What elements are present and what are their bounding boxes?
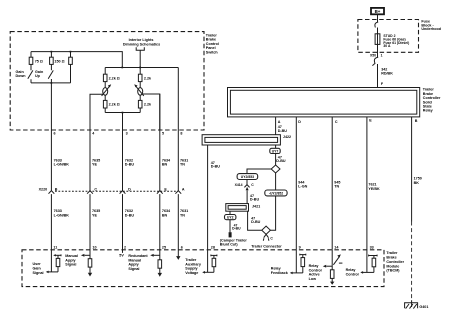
svg-text:-UY2/852: -UY2/852 bbox=[269, 192, 283, 196]
resistor 2.2k ohm left top bbox=[103, 68, 119, 82]
svg-text:3: 3 bbox=[126, 131, 128, 135]
label Relay Control Active Low bbox=[309, 264, 322, 281]
label 7633 L-GN/BK upper bbox=[54, 158, 70, 166]
svg-text:11: 11 bbox=[53, 246, 57, 250]
wire J422 to UY7 bbox=[275, 145, 277, 148]
svg-text:Redundant: Redundant bbox=[128, 254, 148, 258]
wire 7633 lower bbox=[50, 194, 52, 272]
svg-text:2.2k: 2.2k bbox=[144, 102, 152, 106]
wire J422 left drop to pin 28 bbox=[207, 145, 209, 272]
svg-text:Dimming Schematics: Dimming Schematics bbox=[123, 43, 160, 47]
wire pot bottom rail bbox=[105, 112, 140, 114]
connector UY2 bbox=[225, 215, 236, 220]
svg-text:Signal: Signal bbox=[128, 267, 139, 271]
label 47 D-BU blunt cut wire bbox=[232, 224, 241, 231]
svg-text:YE: YE bbox=[92, 213, 97, 217]
label 7635 YE upper bbox=[92, 158, 100, 166]
svg-text:Trailer: Trailer bbox=[185, 258, 197, 262]
TBCM dashed box bbox=[22, 250, 384, 287]
wire pin A 47 D-BU bbox=[275, 117, 277, 135]
svg-text:Relay: Relay bbox=[309, 264, 320, 268]
pin 33 pull resistor bbox=[367, 250, 377, 273]
label Manual Apply Signal bbox=[65, 254, 78, 267]
pin 9 pull resistor bbox=[296, 250, 306, 273]
svg-text:Signal: Signal bbox=[65, 263, 76, 267]
splice pack J421 bbox=[226, 204, 260, 212]
label Camper Trailer Blunt Cut bbox=[220, 239, 248, 247]
wire left wiper to pin4 bbox=[90, 94, 103, 130]
wire dimming stem bbox=[139, 50, 141, 67]
label 7634 BN lower bbox=[162, 209, 171, 217]
svg-text:Underhood: Underhood bbox=[421, 27, 441, 31]
junction dots pot rail bbox=[121, 67, 123, 69]
svg-text:Apply: Apply bbox=[65, 258, 76, 262]
svg-text:Gain: Gain bbox=[33, 267, 42, 271]
svg-text:E: E bbox=[164, 187, 167, 191]
svg-text:10: 10 bbox=[92, 246, 96, 250]
wire 7631 upper bbox=[177, 68, 179, 191]
svg-text:(TBCM): (TBCM) bbox=[386, 269, 400, 273]
resistor 2.2k right bottom bbox=[138, 100, 152, 112]
wire fuse to X50 bbox=[377, 44, 379, 57]
svg-text:L-GN: L-GN bbox=[298, 185, 307, 189]
wire gain rail bbox=[31, 82, 71, 84]
svg-text:D-BU: D-BU bbox=[251, 220, 261, 224]
svg-text:Signal: Signal bbox=[33, 271, 44, 275]
svg-text:B: B bbox=[55, 187, 58, 191]
connector UY2/852 bbox=[265, 190, 287, 196]
svg-text:Low: Low bbox=[309, 277, 317, 281]
svg-text:2: 2 bbox=[124, 246, 126, 250]
svg-text:28: 28 bbox=[211, 246, 215, 250]
wire right wiper to pin5 bbox=[143, 94, 160, 130]
svg-text:Trailer Connector: Trailer Connector bbox=[251, 245, 282, 249]
svg-text:150 Ω: 150 Ω bbox=[54, 59, 64, 63]
svg-text:TN: TN bbox=[334, 185, 339, 189]
wire 7632 lower bbox=[122, 194, 124, 253]
svg-text:6: 6 bbox=[54, 131, 56, 135]
svg-text:D: D bbox=[128, 187, 131, 191]
wire relay feedback arrow bbox=[290, 272, 303, 275]
svg-text:Relay: Relay bbox=[271, 267, 282, 271]
wire pin B 1750 BK solid bbox=[411, 117, 413, 222]
wire redundant apply arrow bbox=[150, 254, 160, 257]
svg-text:Down: Down bbox=[16, 74, 27, 78]
trailer brake control panel switch dashed box bbox=[10, 32, 204, 130]
svg-text:D-BU: D-BU bbox=[232, 227, 241, 231]
svg-text:5: 5 bbox=[162, 131, 164, 135]
svg-text:User: User bbox=[33, 262, 42, 266]
svg-text:D-BU: D-BU bbox=[125, 163, 135, 167]
svg-text:4: 4 bbox=[92, 131, 95, 135]
svg-text:L-GN/BK: L-GN/BK bbox=[54, 163, 70, 167]
resistor R3 unlabeled bbox=[69, 52, 73, 83]
blunt cut terminator bbox=[229, 232, 232, 237]
label 7635 YE lower bbox=[92, 209, 100, 217]
splice diamond trailer bbox=[262, 226, 271, 234]
switch Gain Up bbox=[35, 70, 53, 79]
wire 1750 BK dashed bbox=[411, 222, 413, 301]
svg-text:F: F bbox=[381, 82, 384, 86]
wire trailer aux supply arrow bbox=[202, 271, 214, 274]
svg-text:C: C bbox=[335, 120, 338, 124]
svg-text:UY7: UY7 bbox=[272, 149, 279, 153]
label 342 RD/BK bbox=[381, 68, 393, 76]
svg-text:D-BU: D-BU bbox=[278, 129, 288, 133]
svg-text:Relay: Relay bbox=[346, 268, 357, 272]
wire X414 to J421 bbox=[246, 190, 248, 203]
relay switch pin 14 bbox=[333, 254, 342, 264]
resistor 75 ohm bbox=[29, 52, 43, 71]
fuse STUD 2 30A bbox=[375, 34, 409, 48]
resistor pin 14 to ground bbox=[330, 270, 334, 285]
label Trailer Brake Controller Module TBCM bbox=[386, 251, 404, 273]
connector X220 pin B bbox=[49, 187, 58, 193]
svg-text:E: E bbox=[369, 119, 372, 123]
connector UY2/853 bbox=[237, 174, 258, 180]
wire B+ to fuse block bbox=[377, 14, 379, 22]
wire UY7 to splice diamond bbox=[275, 154, 277, 166]
svg-text:Up: Up bbox=[35, 74, 41, 78]
svg-text:RD/BK: RD/BK bbox=[381, 71, 393, 75]
svg-text:TN: TN bbox=[180, 163, 185, 167]
svg-text:TN: TN bbox=[180, 213, 185, 217]
label 7621 YE/BK bbox=[368, 183, 380, 191]
label Trailer Auxiliary Supply Voltage bbox=[185, 258, 202, 275]
svg-text:Brake: Brake bbox=[386, 256, 396, 260]
wire pot top rail bbox=[105, 67, 178, 69]
connector X220 pin D bbox=[120, 187, 132, 193]
svg-text:D-BU: D-BU bbox=[276, 159, 286, 163]
wire diamond to UY2/853 bbox=[247, 169, 271, 174]
wire relay control active low arrow bbox=[323, 265, 332, 268]
wire 7632 upper bbox=[122, 113, 124, 191]
label Trailer Brake Controller Solid State Relay bbox=[423, 88, 441, 113]
svg-text:Blunt Cut): Blunt Cut) bbox=[220, 243, 239, 247]
label 7632 D-BU lower bbox=[125, 209, 135, 217]
svg-text:Controller: Controller bbox=[386, 260, 404, 264]
wire user gain signal arrow bbox=[46, 271, 58, 274]
svg-text:BN: BN bbox=[162, 163, 168, 167]
connector X50 pin 1 bbox=[370, 53, 383, 65]
svg-text:BK: BK bbox=[414, 181, 420, 185]
svg-text:75 Ω: 75 Ω bbox=[35, 59, 43, 63]
wire J421 to UY2 bbox=[229, 211, 231, 214]
connector X220 pin E bbox=[157, 187, 168, 193]
dimming bracket symbol bbox=[136, 47, 144, 50]
wire pin3 drop bbox=[122, 113, 124, 131]
trailer brake controller solid state relay box bbox=[228, 88, 420, 117]
connector X414 pin C bbox=[235, 180, 255, 191]
svg-text:X220: X220 bbox=[39, 187, 48, 191]
svg-text:BN: BN bbox=[162, 213, 168, 217]
wire UY2/852 to trailer diamond bbox=[270, 196, 275, 230]
svg-text:2.2k: 2.2k bbox=[144, 76, 152, 80]
svg-text:J421: J421 bbox=[252, 205, 260, 209]
label Relay Feedback bbox=[271, 267, 289, 275]
svg-text:C: C bbox=[270, 236, 273, 240]
connector X220 pin C bbox=[87, 187, 97, 193]
svg-text:Module: Module bbox=[386, 264, 399, 268]
svg-text:Active: Active bbox=[309, 273, 320, 277]
label 47 D-BU X414 wire bbox=[250, 194, 260, 202]
resistor pin 25 bbox=[158, 260, 162, 277]
svg-text:Apply: Apply bbox=[128, 263, 139, 267]
wire manual apply arrow bbox=[81, 254, 90, 257]
wire to fuse bbox=[377, 28, 379, 34]
switch Gain Down bbox=[16, 70, 33, 83]
label 7632 D-BU upper bbox=[125, 158, 135, 166]
label 7631 TN upper bbox=[180, 158, 188, 166]
pin 11 pull resistor bbox=[53, 254, 61, 272]
wire J421 to trailer diamond bbox=[248, 211, 262, 230]
connector UY7 bbox=[270, 148, 280, 153]
svg-text:5V: 5V bbox=[119, 253, 124, 257]
label Trailer Brake Control Panel Switch bbox=[206, 33, 219, 54]
label 7633 L-GN/BK lower bbox=[54, 209, 70, 217]
wire pin E 7621 YE/BK bbox=[366, 117, 368, 250]
svg-text:6: 6 bbox=[181, 246, 183, 250]
pin 2 stub 5V bbox=[119, 250, 124, 258]
resistor pin 10 bbox=[88, 259, 92, 277]
label User Gain Signal bbox=[33, 262, 44, 275]
potentiometer left bbox=[102, 82, 112, 101]
resistor 2.2k ohm left bottom bbox=[103, 100, 119, 112]
wire diamond to UY2/852 bbox=[275, 173, 277, 190]
svg-text:2.2k Ω: 2.2k Ω bbox=[109, 76, 120, 80]
label 7631 TN lower bbox=[180, 209, 188, 217]
svg-text:Feedback: Feedback bbox=[271, 271, 289, 275]
label 47 D-BU diamond wire bbox=[251, 217, 261, 224]
svg-text:Relay: Relay bbox=[423, 109, 434, 113]
label Redundant Manual Apply Signal bbox=[128, 254, 148, 271]
svg-text:Trailer: Trailer bbox=[386, 251, 398, 255]
fuse block underhood dashed box bbox=[358, 20, 419, 53]
label 47 D-BU below UY7 bbox=[276, 156, 286, 164]
svg-text:A: A bbox=[182, 187, 185, 191]
svg-text:Manual: Manual bbox=[128, 258, 141, 262]
label Interior Lights Dimming Schematics bbox=[123, 38, 160, 46]
svg-text:1: 1 bbox=[381, 53, 383, 57]
pin 6 down arrow bbox=[176, 256, 180, 260]
svg-text:Supply: Supply bbox=[185, 267, 198, 271]
svg-text:Voltage: Voltage bbox=[185, 271, 198, 275]
wire 7634 upper bbox=[159, 94, 161, 191]
svg-text:2.2k Ω: 2.2k Ω bbox=[109, 102, 120, 106]
connector X220 dotted line bbox=[55, 190, 176, 192]
wire top bus bbox=[31, 52, 122, 68]
svg-text:YE/BK: YE/BK bbox=[368, 187, 380, 191]
label Relay Control bbox=[346, 268, 359, 276]
svg-text:8: 8 bbox=[180, 131, 182, 135]
ground G401 bbox=[405, 300, 429, 309]
pin 28 pull resistor bbox=[211, 255, 217, 273]
label 47 D-BU pin A bbox=[278, 125, 288, 133]
svg-text:X414: X414 bbox=[235, 183, 243, 187]
wire UY2 to blunt cut bbox=[229, 220, 231, 233]
svg-text:D-BU: D-BU bbox=[250, 198, 260, 202]
wire 7635 lower bbox=[89, 194, 91, 259]
svg-text:9: 9 bbox=[299, 246, 301, 250]
potentiometer right bbox=[134, 82, 144, 101]
label 7634 BN upper bbox=[162, 158, 171, 166]
splice pack J422 bbox=[202, 135, 291, 145]
wire 7631 lower bbox=[177, 194, 179, 256]
svg-text:Auxiliary: Auxiliary bbox=[185, 262, 202, 266]
splice diamond upper bbox=[271, 165, 280, 173]
resistor 2.2k right top bbox=[138, 68, 152, 82]
wire pin C 945 TN bbox=[331, 117, 333, 250]
wire pin D 944 L-GN bbox=[295, 117, 297, 250]
svg-text:Interior Lights: Interior Lights bbox=[129, 38, 154, 42]
svg-text:G401: G401 bbox=[419, 305, 428, 309]
resistor 150 ohm bbox=[50, 52, 65, 71]
svg-text:UY2: UY2 bbox=[227, 216, 234, 220]
connector hook inside fuse block bbox=[375, 22, 378, 27]
label 47 D-BU left drop bbox=[211, 161, 221, 169]
junction dot bottom rail bbox=[122, 112, 124, 114]
pin 14 wire bbox=[331, 250, 333, 270]
svg-text:Control: Control bbox=[309, 268, 322, 272]
wire 7633 upper bbox=[50, 79, 52, 191]
svg-text:D: D bbox=[298, 120, 301, 124]
svg-text:14: 14 bbox=[334, 246, 339, 250]
junction dots on bus bbox=[51, 51, 53, 53]
wire 7635 upper bbox=[89, 94, 91, 190]
label 945 TN bbox=[334, 181, 340, 189]
trailer connector symbol pin C bbox=[263, 234, 273, 240]
svg-text:30 A: 30 A bbox=[383, 44, 391, 48]
svg-text:D-BU: D-BU bbox=[211, 164, 221, 168]
wire 342 RD/BK bbox=[377, 64, 379, 88]
svg-text:33: 33 bbox=[370, 246, 374, 250]
wire relay control arrow bbox=[360, 271, 374, 274]
svg-text:YE: YE bbox=[92, 163, 97, 167]
svg-text:25: 25 bbox=[162, 246, 166, 250]
svg-text:UY2/853: UY2/853 bbox=[241, 175, 254, 179]
svg-text:B: B bbox=[415, 119, 418, 123]
connector X220 pin A bbox=[175, 187, 185, 193]
svg-text:Control: Control bbox=[346, 272, 359, 276]
svg-text:D-BU: D-BU bbox=[125, 213, 135, 217]
wire 7634 lower bbox=[159, 194, 161, 260]
svg-text:J422: J422 bbox=[283, 135, 291, 139]
svg-text:B+: B+ bbox=[375, 9, 381, 14]
svg-text:X50: X50 bbox=[370, 53, 376, 57]
B+ battery feed box bbox=[371, 8, 384, 14]
label 1750 BK bbox=[414, 177, 422, 185]
svg-text:L-GN/BK: L-GN/BK bbox=[54, 213, 70, 217]
svg-text:C: C bbox=[94, 187, 97, 191]
svg-text:C: C bbox=[251, 183, 254, 187]
svg-text:Switch: Switch bbox=[206, 51, 219, 55]
label 944 L-GN bbox=[298, 181, 307, 189]
label Fuse Block - Underhood bbox=[421, 20, 441, 31]
svg-text:A: A bbox=[278, 120, 281, 124]
svg-text:Manual: Manual bbox=[65, 254, 78, 258]
